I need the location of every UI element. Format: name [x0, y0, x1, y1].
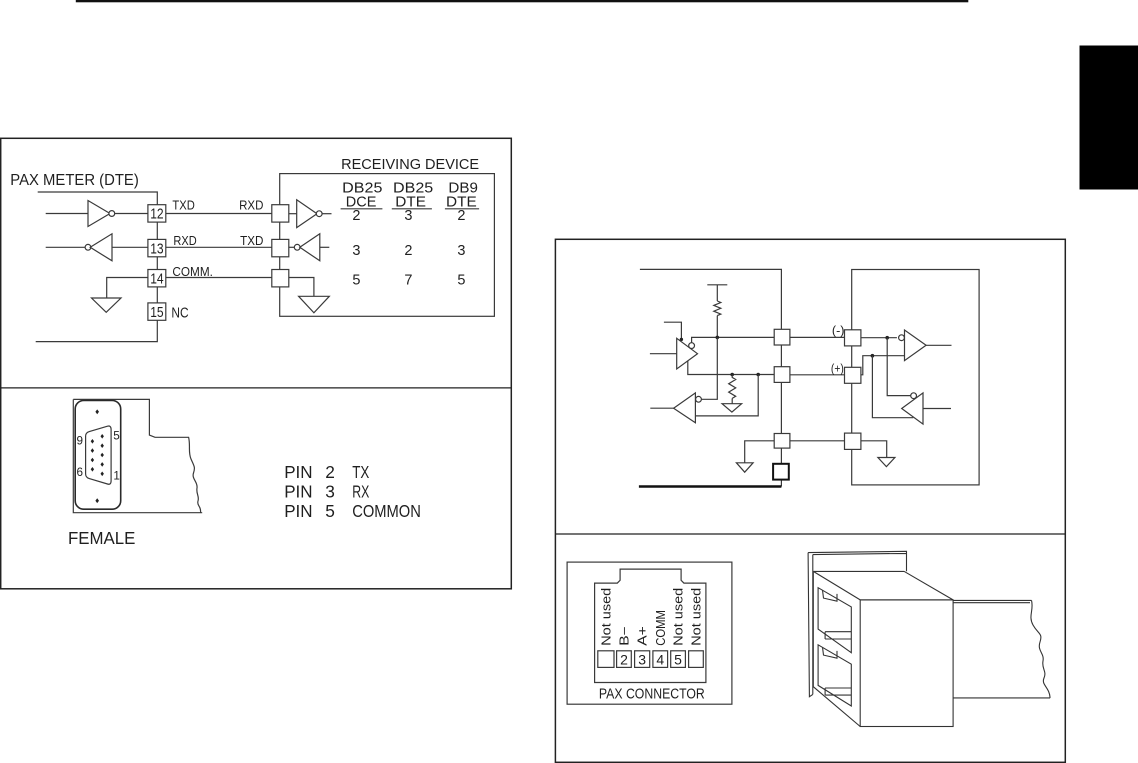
buffer U1 (TX driver) — [88, 201, 110, 227]
svg-text:15: 15 — [150, 305, 163, 321]
wire (-) bus: driver to terminal — [692, 337, 775, 342]
receiving device box (RS485) — [852, 270, 979, 485]
svg-text:Not used: Not used — [672, 588, 686, 646]
ground (PAX RS485 common) — [736, 463, 753, 472]
wire: (-) bus down to receiver bubble — [701, 337, 717, 399]
PAX terminal shield (thick) — [773, 464, 789, 480]
buffer U3 (receiving RX) — [297, 200, 317, 228]
inverter bubble U2 — [85, 244, 91, 250]
receiver input bubble — [696, 396, 702, 402]
inverter U2 (RX receiver, points left) — [90, 234, 112, 261]
socket 1 latch tab — [823, 590, 838, 601]
svg-text:TX: TX — [352, 462, 369, 482]
panel frame: left figure box — [1, 138, 512, 589]
svg-text:COMMON: COMMON — [352, 501, 421, 521]
wire: U3 output stub — [322, 213, 331, 215]
DB9 D-sub face — [86, 426, 112, 484]
resistor R2 (bias) — [729, 375, 736, 404]
svg-text:5: 5 — [113, 429, 120, 442]
resistor R1 (pull-up) — [714, 301, 721, 337]
enable junction dot — [680, 338, 683, 341]
ground (receiving RS485) — [878, 458, 895, 467]
pin dots column 1-5 — [101, 434, 104, 476]
side tab (black index block) — [1080, 46, 1138, 190]
wire: receiving common to ground — [861, 441, 887, 458]
pin 14 terminal — [148, 270, 166, 288]
wire: input to TX driver — [46, 213, 88, 215]
receiving pin terminal row1 — [272, 205, 289, 222]
svg-text:COMM.: COMM. — [172, 264, 213, 279]
panel frame: right figure box — [555, 239, 1065, 762]
wire: receiving common to ground — [289, 278, 314, 297]
svg-text:2: 2 — [457, 208, 465, 224]
inverter bubble U4 — [294, 244, 300, 250]
wire: U2 to pin 13 — [112, 246, 148, 248]
PAX terminal (+) — [774, 367, 790, 383]
receiver U5 triangle (points left) — [674, 393, 696, 423]
receiving terminal (+) — [845, 367, 861, 383]
svg-text:PIN: PIN — [284, 462, 312, 482]
socket 2 latch tab — [823, 647, 838, 658]
pc board edges — [953, 600, 1050, 698]
svg-text:B−: B− — [618, 626, 632, 646]
inverter U4 (receiving TX, points left) — [300, 234, 320, 261]
page header rule — [76, 0, 969, 2]
svg-text:3: 3 — [457, 243, 465, 259]
pin 13 terminal — [148, 239, 166, 257]
socket 2 ledge — [825, 688, 851, 695]
svg-text:13: 13 — [150, 241, 163, 257]
receiver U6 input bubble — [899, 335, 905, 341]
svg-text:3: 3 — [638, 651, 646, 667]
svg-text:12: 12 — [150, 207, 163, 223]
junction dot R2 — [730, 373, 734, 377]
PAX meter outline (RS485 side) — [640, 269, 782, 486]
PAX terminal (-) — [774, 329, 790, 345]
socket opening 1 — [818, 588, 851, 653]
wire (+) to receiving device — [790, 374, 845, 376]
receiving device box — [280, 174, 495, 317]
driver enable wire — [664, 322, 682, 339]
connector body left face — [813, 571, 860, 726]
PAX meter outline — [36, 192, 158, 342]
wire: pin to bubble U4 — [289, 246, 295, 248]
svg-text:(-): (-) — [832, 323, 845, 337]
wire common to receiving device — [790, 440, 845, 442]
wire: receiver output — [650, 407, 673, 409]
wire: (+) terminal to U6 lower input — [861, 356, 905, 375]
svg-text:6: 6 — [77, 466, 84, 479]
DB9 shell rounded face — [75, 401, 121, 510]
junction dot receiver branch — [756, 373, 760, 377]
wire: U7 input — [923, 408, 951, 410]
junction dot U6 input — [885, 336, 889, 340]
wire (+) bus: driver output loop — [688, 361, 774, 375]
svg-text:RXD: RXD — [173, 233, 196, 248]
wire: (+) branch to driver U7 loop — [872, 356, 913, 418]
driver U7 bubble — [911, 393, 917, 399]
svg-text:A+: A+ — [636, 626, 650, 646]
pc board break line — [1031, 600, 1050, 698]
receiving terminal (-) — [845, 330, 861, 346]
svg-text:5: 5 — [352, 273, 360, 289]
receiving pin terminal row2 — [272, 239, 289, 256]
svg-text:TXD: TXD — [240, 233, 263, 248]
wire RXD: pin13 to receiving pin — [166, 246, 272, 248]
socket opening 2 — [818, 645, 851, 706]
PAX connector body outline — [595, 569, 706, 682]
inverter bubble U3 — [316, 211, 322, 217]
svg-text:COMM: COMM — [654, 610, 668, 646]
connector body top rear edge — [813, 570, 904, 572]
receiving pin terminal row3 — [272, 270, 289, 287]
wire TXD: pin12 to receiving pin — [166, 213, 272, 215]
connector body top face — [813, 571, 953, 600]
screw hole bottom — [95, 498, 99, 503]
svg-text:Not used: Not used — [599, 588, 613, 646]
inverter bubble U1 — [109, 211, 115, 217]
svg-text:5: 5 — [457, 273, 465, 289]
svg-text:RXD: RXD — [239, 197, 263, 212]
svg-text:7: 7 — [404, 273, 412, 289]
svg-text:1: 1 — [113, 469, 120, 482]
svg-text:NC: NC — [171, 305, 188, 322]
wire (-) to receiving device — [790, 336, 846, 338]
terminal 1 (not used) — [598, 651, 614, 668]
svg-text:5: 5 — [325, 501, 335, 521]
driver output bubble — [689, 343, 695, 349]
wire: ground stub to pin 14 — [107, 278, 148, 299]
svg-text:PAX CONNECTOR: PAX CONNECTOR — [599, 687, 705, 703]
DB9 panel outline with break line — [73, 399, 202, 512]
mounting flange top edge — [808, 551, 906, 571]
junction dot — [716, 336, 720, 340]
svg-text:2: 2 — [352, 208, 360, 224]
pin dots column 6-9 — [91, 439, 94, 472]
pin 15 terminal — [148, 303, 166, 321]
svg-text:FEMALE: FEMALE — [68, 528, 135, 548]
svg-text:TXD: TXD — [172, 197, 194, 212]
svg-text:PAX METER (DTE): PAX METER (DTE) — [10, 172, 139, 189]
terminal 6 (not used) — [689, 651, 704, 668]
PAX connector outer box — [567, 562, 732, 704]
svg-text:PIN: PIN — [284, 501, 312, 521]
wire: (-) branch down to U7 bubble — [887, 338, 910, 396]
ground (receiving device) — [299, 296, 330, 313]
svg-text:Not used: Not used — [690, 588, 704, 646]
wire: (+) branch down to receiver — [695, 375, 758, 416]
wire COMM: pin14 to receiving pin — [166, 277, 272, 279]
mounting flange left edge — [808, 553, 813, 697]
pin 12 terminal — [148, 205, 166, 223]
ground (PAX meter common) — [92, 298, 122, 312]
PAX meter bottom edge (thick) — [639, 485, 782, 488]
wire: driver input — [650, 353, 677, 355]
ground (R2) — [722, 404, 742, 412]
panel frame divider (right box) — [555, 533, 1065, 535]
wire: U6 output — [926, 344, 951, 346]
svg-text:3: 3 — [404, 208, 412, 224]
wire: PAX common to ground — [745, 441, 775, 463]
junction dot (+) branch — [871, 354, 875, 358]
wire: pin to buffer U3 — [289, 213, 297, 215]
receiving terminal common — [845, 433, 861, 449]
panel frame divider (left box) — [1, 387, 512, 389]
svg-text:RX: RX — [352, 482, 369, 502]
wire: U4 output stub — [320, 246, 330, 248]
svg-text:9: 9 — [77, 435, 84, 448]
power rail V+ — [707, 285, 727, 301]
socket 1 ledge — [825, 632, 851, 639]
driver U7 triangle (points left) — [902, 393, 923, 424]
svg-text:3: 3 — [325, 482, 335, 502]
svg-text:2: 2 — [325, 462, 335, 482]
svg-text:2: 2 — [620, 651, 628, 667]
svg-text:4: 4 — [656, 651, 664, 667]
terminal 4 — [653, 651, 668, 668]
wire: U1 to pin 12 — [115, 213, 148, 215]
svg-text:5: 5 — [674, 651, 682, 667]
driver D1 triangle — [677, 338, 698, 369]
svg-text:RECEIVING DEVICE: RECEIVING DEVICE — [341, 157, 479, 173]
svg-text:14: 14 — [150, 272, 163, 288]
svg-text:3: 3 — [352, 243, 360, 259]
PAX terminal common — [774, 434, 790, 449]
wire: input to RX inverter output (left) — [46, 246, 85, 248]
terminal 5 — [671, 651, 686, 668]
svg-text:(+): (+) — [831, 361, 844, 375]
terminal 2 — [617, 651, 632, 668]
screw hole top — [95, 409, 99, 414]
connector body front face — [860, 600, 953, 727]
receiver U6 triangle — [905, 330, 927, 361]
terminal 3 — [635, 651, 650, 668]
svg-text:2: 2 — [404, 243, 412, 259]
wire: (-) terminal to receiver U6 — [861, 337, 897, 339]
svg-text:PIN: PIN — [284, 482, 312, 502]
